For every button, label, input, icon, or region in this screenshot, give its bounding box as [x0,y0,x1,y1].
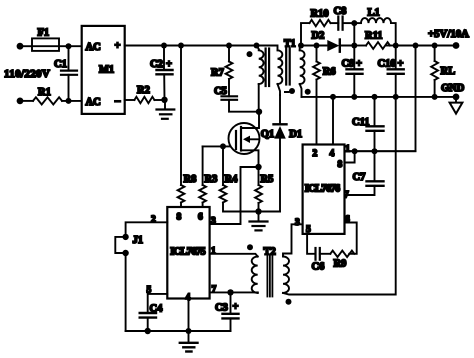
svg-text:R3: R3 [205,174,218,185]
wire pin7 to T2 [210,291,258,293]
svg-text:6: 6 [345,215,350,225]
svg-text:C9: C9 [342,59,355,70]
svg-text:6: 6 [198,213,203,223]
node T1 primary top junction [254,43,260,49]
svg-text:D1: D1 [289,129,302,140]
node RL top junction [432,43,438,49]
svg-text:R9: R9 [334,259,347,270]
wire pin5 to C4 [148,294,168,313]
node T1 primary polarity dot [247,51,253,57]
svg-text:R5: R5 [261,174,274,185]
svg-text:C10: C10 [378,59,396,70]
svg-text:1: 1 [211,247,216,257]
wire pin4 to ground rail [188,299,190,332]
svg-text:R1: R1 [38,87,51,98]
svg-text:R7: R7 [211,68,224,79]
capacitor C3 [215,292,239,331]
resistor R11 [354,31,395,49]
svg-text:C7: C7 [353,172,366,183]
node R6 top junction [314,43,320,49]
node RL bottom junction [432,94,438,100]
node C9 bottom junction [351,94,357,100]
svg-text:4: 4 [330,149,335,159]
wire source node to pin3 riser [210,167,259,224]
inductor L1 [354,8,395,46]
capacitor C4 [140,304,163,332]
svg-text:+: + [115,41,121,52]
wire C5 to drain node [229,100,259,112]
capacitor C9 [342,46,363,97]
svg-text:T2: T2 [264,247,276,258]
node input-bottom terminal [17,98,24,105]
node output terminal [453,42,460,49]
wire gate line R3 to Q1 gate [203,145,236,147]
svg-text:R11: R11 [365,31,383,42]
svg-text:+: + [233,302,239,313]
node pin4 rail junction [186,328,192,334]
svg-text:L1: L1 [368,8,380,19]
svg-text:ICL7676: ICL7676 [305,184,340,195]
svg-text:AC: AC [86,42,101,53]
svg-text:R6: R6 [323,67,336,78]
svg-text:R4: R4 [225,174,239,185]
node C1 top junction [66,43,72,49]
jumper J1 [115,234,143,257]
node C3 top junction [227,289,233,295]
snubber riser left [301,23,310,45]
transistor Q1 MOSFET [229,112,275,167]
ground below bottom rail [180,331,198,352]
svg-text:C6: C6 [312,262,325,273]
node pin4 top junction [330,94,336,100]
wire feedback line down to pin1 line [345,46,416,152]
wire top rail M1 to T1 [164,45,257,47]
node Q1 source junction [255,164,261,170]
node secondary top junction [298,43,304,49]
wire C8/L1 node down to output line [353,23,355,45]
svg-text:2: 2 [313,149,318,159]
node T2 polarity dot left [247,244,253,250]
svg-text:F1: F1 [38,28,50,39]
wire gnd rail [302,96,457,98]
wire M1 minus to R2 [125,99,135,101]
wire bottom rail [126,330,231,332]
svg-text:T1: T1 [284,39,296,50]
node ground junction mid [255,208,261,214]
resistor R2 [134,85,154,103]
node top rail R7 junction [226,43,232,49]
op-amp U1 ICL7675 [147,207,217,303]
node C1 bottom junction [66,98,72,104]
resistor R6 [313,46,336,145]
capacitor C7 [345,151,384,195]
wire input top to fuse [20,45,32,47]
node T1 secondary polarity dot right [305,89,311,95]
svg-text:7: 7 [212,285,217,295]
svg-text:Q1: Q1 [261,129,274,140]
node feedback line top junction [413,43,419,49]
svg-text:+: + [398,59,404,70]
wire input bottom to R1 [20,100,33,102]
wire pin4 riser [332,97,334,145]
ground arrow output [450,97,463,114]
capacitor C8 [331,6,355,30]
svg-text:C4: C4 [150,304,164,315]
wire R1 to M1 [62,100,82,102]
wire R9 to pin6 [345,223,357,254]
svg-text:1: 1 [345,145,350,155]
resistor R4 [220,146,238,202]
svg-text:ICL7675: ICL7675 [170,247,205,258]
wire polarity dash mark [285,91,289,93]
resistor R1 [33,87,62,105]
wire feed line down to R8 [180,46,182,186]
resistor R3 [199,146,217,207]
wire M1 plus output to top rail [125,45,164,47]
node L1/C10 junction [393,43,399,49]
capacitor C6 [312,248,331,273]
wire fuse to M1 [59,45,82,47]
svg-text:R10: R10 [311,9,329,20]
capacitor C1 [54,46,77,101]
svg-text:C2: C2 [150,59,163,70]
node top rail / R8 feed junction [178,43,184,49]
node C8 L1 junction [351,20,357,26]
svg-text:AC: AC [86,97,101,108]
svg-text:110/220V: 110/220V [4,68,50,80]
wire R2 to C2 node [154,99,164,101]
node pin8 junction [352,148,358,154]
svg-text:C8: C8 [334,6,347,17]
svg-text:C11: C11 [352,117,370,128]
transformer T1 [257,39,305,112]
resistor R9 [330,251,354,270]
resistor R8 [178,174,197,203]
wire output top line [301,45,327,47]
node T2 polarity dot right [286,299,292,305]
fuse F1 [32,28,59,51]
wire J1 down to bottom rail [125,253,127,331]
svg-text:C1: C1 [54,59,67,70]
transformer T2 [252,247,289,297]
capacitor C11 [352,97,384,151]
svg-text:2: 2 [151,215,156,225]
wire T2 secondary bottom long loop to gnd rail [283,97,396,295]
wire T2 secondary top to ICL7676 pin3 [283,224,303,256]
node T1 secondary polarity dot left [289,88,295,94]
wire pin1 to T2 primary top [210,254,258,257]
diode D2 [312,31,355,52]
resistor R7 [211,46,232,80]
capacitor C10 [378,46,404,97]
svg-text:+: + [166,59,172,70]
wire pin5 to C6 [307,234,315,254]
wire pin1 line [345,150,416,152]
svg-text:8: 8 [338,160,343,170]
node gnd terminal [453,94,460,101]
capacitor C2 [150,46,173,100]
svg-text:R8: R8 [184,174,197,185]
svg-text:3: 3 [211,217,216,227]
svg-text:M1: M1 [99,65,114,76]
svg-text:C5: C5 [214,86,227,97]
rectifier M1 [82,26,125,114]
wire pin2 to J1 [126,222,168,237]
resistor RL [431,46,455,97]
node C9 top junction [351,43,357,49]
svg-text:3: 3 [295,218,300,228]
node C4 bottom junction [145,328,151,334]
svg-text:D2: D2 [312,31,325,42]
node R4 gate junction [220,143,226,149]
resistor R5 [255,167,273,212]
svg-text:C3: C3 [215,303,228,314]
node C2 top junction [161,43,167,49]
ground below R5 [250,212,268,231]
node C11 top junction [372,94,378,100]
node loop top junction [393,94,399,100]
node input-top terminal [17,43,24,50]
op-amp U2 ICL7676 [295,145,350,236]
wire R4 bottom to ground line to D1 [223,203,280,212]
svg-text:J1: J1 [133,235,144,246]
svg-text:GND: GND [441,83,465,94]
svg-text:8: 8 [177,213,182,223]
capacitor C5 [214,79,237,100]
svg-text:–: – [114,96,121,107]
svg-text:RL: RL [441,66,456,77]
ground below C2/R2 [157,100,175,119]
wire pin8 stub [345,151,355,162]
svg-text:+: + [356,59,362,70]
node Q1 drain junction [256,109,262,115]
diode D1 [274,95,303,212]
svg-text:R2: R2 [137,85,150,96]
node C2 bottom junction [161,97,167,103]
svg-text:+5V/10A: +5V/10A [428,28,469,40]
wire R8 to pin8 [180,203,182,208]
wire output line right [396,45,456,47]
node C11 bottom junction [372,148,378,154]
resistor R10 [310,9,331,27]
